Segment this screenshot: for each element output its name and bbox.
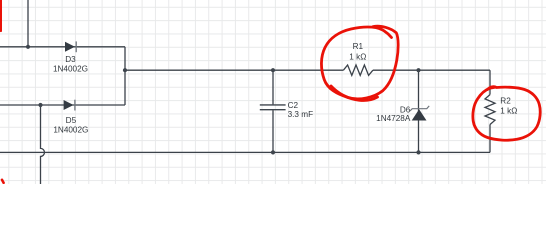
junction dot C2 top [271,68,275,72]
resistor R2 zigzag [485,95,495,125]
wire R2 branch bottom [489,125,491,153]
diode D3 [65,41,76,52]
wire rail B (D5 input row) [0,104,125,106]
wire D6 branch [418,70,420,152]
red annotation circle around R2 [473,87,540,141]
capacitor C2 plates [260,105,286,110]
wire vertical input top-left [27,0,29,47]
resistor R1 zigzag [343,65,373,75]
svg-text:1N4728A: 1N4728A [376,114,411,123]
wire rail C right of R1 [373,69,490,71]
diode D5 [64,100,75,111]
junction dot D5 row [38,103,42,107]
red annotation stub bottom-left edge [2,180,4,183]
svg-text:R1: R1 [353,42,364,51]
svg-text:1 kΩ: 1 kΩ [500,107,517,116]
svg-text:3.3 mF: 3.3 mF [288,110,313,119]
red annotation circle R1 overdraw at bottom [331,86,378,100]
junction dot D6 bottom [416,150,420,154]
wire C2 branch bottom [272,110,274,152]
svg-text:1N4002G: 1N4002G [53,125,88,134]
wire C2 branch top [272,70,274,104]
junction dot bus output [123,68,127,72]
red annotation stub top-left edge [0,0,2,31]
wire vertical bus joining diode outputs [124,47,126,105]
svg-text:D5: D5 [66,116,77,125]
wire rail A (D3 input row) [0,46,125,48]
wire rail C (main positive rail) left of R1 [125,69,343,71]
junction dot C2 bottom [271,150,275,154]
svg-text:R2: R2 [500,96,511,105]
wire R2 branch top [489,70,491,94]
junction dot D6 top [416,68,420,72]
svg-text:1N4002G: 1N4002G [53,65,88,74]
wire rail D (bottom return) [0,151,490,153]
junction dot rail A top-left [26,45,30,49]
zener diode D6 [410,106,429,121]
wire vertical with hop over rail D [41,105,45,184]
svg-text:D3: D3 [65,55,76,64]
svg-text:1 kΩ: 1 kΩ [349,53,366,62]
red annotation circle around R1 [321,26,398,99]
